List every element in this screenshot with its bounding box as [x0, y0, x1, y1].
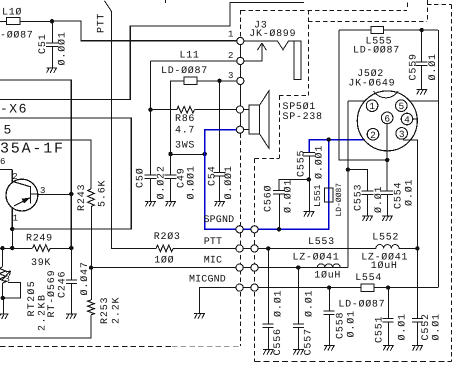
capacitor C554 — [381, 191, 393, 195]
wire base to module pin 6 — [0, 169, 12, 171]
wire right vertical (pin5 net) — [438, 30, 440, 287]
ground — [383, 346, 393, 351]
node R86/C50 — [148, 108, 152, 112]
dashed boundary stub — [407, 3, 409, 10]
inductor L553 — [317, 264, 340, 268]
svg-text:C553: C553 — [353, 184, 364, 211]
dashed boundary right edge — [451, 4, 453, 361]
wire to C558 — [329, 288, 331, 311]
svg-text:C246: C246 — [58, 271, 69, 298]
svg-text:C54: C54 — [207, 165, 218, 186]
svg-text:3: 3 — [5, 275, 11, 285]
jack plug body — [294, 41, 301, 80]
node R249/C246 — [69, 246, 73, 250]
ground — [165, 201, 175, 206]
wire emitter down — [12, 229, 14, 248]
svg-text:SP-238: SP-238 — [283, 112, 323, 123]
capacitor C552 — [412, 319, 423, 323]
wire to L10 — [0, 21, 7, 23]
dashed boundary top right — [427, 4, 452, 6]
capacitor C50 — [144, 175, 156, 179]
wire to C556 — [268, 248, 270, 324]
svg-text:Ø.Ø1: Ø.Ø1 — [274, 290, 285, 317]
node RT205 top — [0, 246, 4, 250]
dashed boundary bottom — [255, 361, 452, 363]
capacitor C553 — [361, 191, 373, 195]
svg-text:Ø.Ø1: Ø.Ø1 — [304, 290, 315, 317]
wire C54 — [219, 81, 221, 173]
J502 pin 3 — [396, 128, 408, 140]
wire to C557 — [298, 268, 300, 324]
svg-text:1ØuH: 1ØuH — [314, 270, 341, 281]
svg-text:C556: C556 — [273, 328, 284, 355]
svg-text:4: 4 — [404, 115, 410, 126]
wire MICGND to ground — [199, 288, 236, 314]
svg-text:LD-ØØ87: LD-ØØ87 — [338, 299, 385, 310]
capacitor C559 — [416, 62, 428, 66]
connector circle MICGND right — [251, 284, 258, 291]
svg-text:MICGND: MICGND — [189, 275, 226, 286]
connector circle MIC left — [236, 264, 243, 271]
connector circle SPGND right — [251, 226, 258, 233]
svg-text:LD-ØØ87: LD-ØØ87 — [353, 46, 400, 57]
node PTT/C556 — [266, 246, 270, 250]
svg-text:L554: L554 — [355, 273, 382, 284]
ground — [412, 346, 422, 351]
svg-text:Ø.ØØ1: Ø.ØØ1 — [187, 165, 198, 199]
svg-text:2: 2 — [228, 51, 234, 61]
wire L10 to node — [20, 21, 52, 23]
svg-text:JK-Ø649: JK-Ø649 — [348, 79, 395, 90]
dashed boundary — [279, 96, 281, 159]
wire C50 to ground — [150, 178, 152, 201]
connector circle J3 pin1 — [237, 37, 244, 44]
capacitor C560 — [273, 190, 285, 194]
wire to blue node — [171, 154, 205, 156]
node L11/C49 — [168, 152, 172, 156]
connector circle PTT right — [251, 245, 258, 252]
resistor R253 — [88, 300, 95, 315]
transistor leads — [12, 170, 38, 229]
svg-text:RT-Ø569: RT-Ø569 — [47, 270, 58, 318]
dashed boundary SP box top — [308, 21, 427, 23]
wire C560 to SPGND — [279, 194, 281, 229]
J502 pin 2 — [367, 129, 379, 141]
ground — [263, 350, 273, 355]
J502 pin 5 — [396, 100, 408, 112]
connector circle J3 pin3 — [237, 77, 244, 84]
capacitor C558 — [324, 311, 335, 315]
wire blue branch to C555 — [309, 140, 329, 153]
svg-text:C5Ø: C5Ø — [136, 167, 147, 188]
svg-text:35A-1F: 35A-1F — [0, 141, 65, 158]
wire to C551 — [388, 288, 390, 319]
wire C555 down — [309, 156, 311, 180]
wire RT205 wiper loop — [3, 283, 21, 298]
wire top net to module — [0, 3, 304, 100]
wire RT205 bottom — [2, 283, 4, 298]
capacitor C555 — [303, 152, 315, 156]
wire connector column solid — [240, 37, 242, 133]
svg-text:MIC: MIC — [204, 255, 222, 266]
connector circle speaker+ — [236, 106, 243, 113]
wire to RT205 — [2, 248, 4, 266]
speaker cone — [260, 91, 269, 148]
svg-text:RT2Ø5: RT2Ø5 — [27, 280, 38, 317]
dashed bottom left (black) — [0, 346, 172, 348]
wire speaker pin2 — [244, 129, 249, 131]
svg-text:R86: R86 — [175, 114, 195, 125]
svg-text:C555: C555 — [296, 150, 307, 177]
svg-text:1ØØ: 1ØØ — [154, 255, 174, 266]
svg-text:L551: L551 — [313, 184, 323, 207]
svg-text:6: 6 — [0, 157, 6, 167]
node L554/C551 — [386, 285, 390, 289]
svg-text:Ø.Ø22: Ø.Ø22 — [157, 165, 168, 199]
wire to C552 — [417, 248, 419, 318]
svg-text:L553: L553 — [308, 237, 335, 248]
capacitor C551 — [383, 319, 394, 323]
svg-text:LD-ØØ87: LD-ØØ87 — [161, 66, 208, 77]
svg-text:1: 1 — [13, 214, 19, 224]
svg-text:4.7: 4.7 — [175, 125, 195, 136]
svg-text:C559: C559 — [409, 53, 420, 80]
wire R203 to PTT pin — [173, 248, 237, 250]
svg-text:L11: L11 — [180, 51, 200, 62]
node C560/SPGND — [277, 227, 281, 231]
node collector junction — [69, 192, 73, 196]
svg-text:C51: C51 — [38, 33, 49, 54]
J502 pin 4 — [401, 113, 413, 125]
wire C552 to ground — [417, 322, 419, 345]
wire PTT to R203 — [111, 248, 156, 250]
ground — [214, 201, 224, 206]
resistor R243 — [88, 189, 95, 207]
dashed bottom left (gray) — [172, 346, 240, 348]
wire pin1 down to MIC — [347, 101, 349, 268]
node emitter junction — [10, 227, 14, 231]
svg-text:3: 3 — [40, 186, 46, 196]
wire module to emitter — [0, 118, 131, 229]
wire collector — [38, 194, 72, 196]
svg-text:5: 5 — [398, 101, 404, 112]
wire down to R86 node — [150, 61, 152, 110]
node pin1/C553 — [346, 167, 350, 171]
wire to R86 — [150, 109, 176, 111]
RT205 wiper arrow — [2, 271, 11, 281]
node L555/C559 — [419, 28, 423, 32]
wire R86 to speaker pin — [194, 109, 236, 111]
svg-text:Ø.ØØ1: Ø.ØØ1 — [58, 31, 69, 65]
node L552/pin3/C552 — [415, 246, 419, 250]
dashed column lower — [240, 233, 242, 346]
wire C49 to ground — [170, 178, 172, 201]
dashed boundary col2 — [254, 159, 256, 362]
wire MIC row — [91, 267, 348, 269]
wire blue speaker-SPGND-J502pin2 — [205, 130, 369, 230]
wire C553 to ground — [367, 194, 369, 215]
svg-text:3: 3 — [399, 129, 405, 140]
wire PTT net — [105, 1, 112, 249]
wire module to R243 — [0, 140, 91, 189]
wire pin3 down — [404, 137, 418, 248]
capacitor C246 — [66, 280, 77, 284]
resistor R249 — [33, 245, 51, 252]
capacitor C49 — [165, 175, 177, 179]
svg-text:Ø.Ø1: Ø.Ø1 — [347, 310, 358, 337]
wire pin6 down — [386, 123, 388, 191]
capacitor C557 — [293, 324, 304, 328]
wire jack tip contact — [244, 41, 294, 50]
ground — [46, 68, 56, 73]
trimmer RT205 — [0, 267, 6, 283]
wire stub at top edge — [165, 0, 167, 3]
wire node to J3 pin1 — [52, 21, 237, 41]
ground — [362, 216, 372, 221]
node blue junction — [327, 137, 331, 141]
connector circle speaker- — [236, 126, 243, 133]
connector circle MIC right — [251, 264, 258, 271]
wire C246 to ground — [71, 284, 73, 314]
ground — [0, 314, 8, 319]
ground — [194, 314, 204, 319]
wire to C51 — [52, 21, 54, 43]
svg-text:Ø.ØØ1: Ø.ØØ1 — [315, 145, 326, 179]
node on blue wire — [203, 152, 207, 156]
wire C558 to ground — [329, 315, 331, 346]
node MIC/R253 — [89, 265, 93, 269]
svg-text:PTT: PTT — [97, 13, 108, 33]
svg-text:C557: C557 — [304, 328, 315, 355]
svg-text:5: 5 — [4, 123, 13, 138]
wire to C49 — [170, 154, 172, 175]
connector circle PTT left — [236, 245, 243, 252]
resistor R203 — [156, 245, 173, 252]
svg-text:Ø.Ø1: Ø.Ø1 — [397, 313, 408, 340]
ground — [66, 314, 76, 319]
node L11/C54 — [217, 79, 221, 83]
emitter arrow — [22, 198, 29, 203]
svg-text:Ø.Ø1: Ø.Ø1 — [405, 179, 416, 206]
svg-text:3WS: 3WS — [175, 141, 195, 152]
ground — [145, 201, 155, 206]
wire R249 left — [0, 248, 33, 250]
inductor L555 — [371, 26, 384, 33]
inductor L554 — [361, 284, 374, 291]
wire L555 to pin6 — [339, 30, 387, 160]
svg-text:39K: 39K — [31, 258, 51, 269]
svg-text:Ø.ØØ1: Ø.ØØ1 — [224, 165, 235, 199]
svg-text:SPGND: SPGND — [204, 215, 235, 226]
wire speaker pin1 — [244, 109, 249, 111]
wire C559 to ground — [421, 66, 423, 90]
connector J502 body — [357, 91, 417, 151]
wire to C560 — [279, 179, 309, 190]
node pin6/L555 — [385, 158, 389, 162]
svg-text:-X6: -X6 — [0, 101, 28, 116]
svg-text:JK-Ø899: JK-Ø899 — [249, 29, 296, 40]
wire to C553 — [348, 170, 368, 191]
wire C54 to ground — [219, 176, 221, 201]
wire to R253 — [91, 268, 93, 300]
svg-text:LD-ØØ87: LD-ØØ87 — [335, 183, 344, 217]
svg-text:2: 2 — [12, 172, 18, 182]
wire to C246 — [71, 248, 73, 280]
capacitor C54 — [214, 173, 226, 177]
wire MICGND row right — [199, 287, 361, 289]
node MICGND/C558 — [327, 285, 331, 289]
wire PTT row right — [173, 248, 376, 250]
svg-text:2: 2 — [370, 130, 376, 141]
inductor L11 — [184, 77, 197, 84]
inductor L10 — [7, 17, 20, 24]
svg-text:Ø.ØØ1: Ø.ØØ1 — [284, 179, 295, 213]
inductor L551 — [325, 188, 333, 202]
svg-text:C551: C551 — [375, 316, 386, 343]
svg-text:1ØuH: 1ØuH — [371, 261, 398, 272]
svg-text:6: 6 — [384, 113, 390, 124]
speaker SP501 symbol — [249, 105, 260, 134]
J502 index notch — [374, 91, 399, 98]
wire L553 to pin1 net — [341, 267, 348, 269]
svg-text:R249: R249 — [26, 233, 53, 244]
node MIC/C557 — [296, 265, 300, 269]
dashed boundary — [308, 10, 310, 96]
dashed boundary — [279, 95, 308, 97]
transistor Q1 — [6, 179, 38, 211]
wire R249 right — [50, 248, 71, 250]
ground — [324, 346, 334, 351]
node L10/C51 junction — [50, 19, 54, 23]
wire J3 pin3 — [197, 80, 237, 82]
capacitor C51 — [46, 43, 58, 47]
dashed boundary — [255, 158, 280, 160]
dashed column below speaker — [240, 133, 242, 225]
wire to C559 — [421, 30, 423, 62]
svg-text:Ø.Ø1: Ø.Ø1 — [431, 313, 442, 340]
inductor L552 — [376, 245, 399, 249]
svg-text:Ø.Ø1: Ø.Ø1 — [428, 53, 439, 80]
ground — [304, 212, 314, 217]
svg-text:1: 1 — [228, 30, 234, 40]
svg-text:C552: C552 — [421, 313, 432, 340]
svg-text:LZ-ØØ41: LZ-ØØ41 — [293, 252, 340, 263]
dashed column above J3 — [240, 10, 242, 38]
connector circle MICGND left — [236, 284, 243, 291]
wire L554 to right vertical — [374, 287, 438, 289]
dashed boundary top J3 box — [241, 10, 407, 12]
wire to C50 — [150, 110, 152, 175]
wire C557 to ground — [298, 328, 300, 350]
svg-text:PTT: PTT — [204, 237, 222, 248]
wire pin1 — [348, 100, 365, 102]
wire pin5 — [410, 100, 438, 102]
svg-text:3: 3 — [228, 71, 234, 81]
J502 pin 6 — [381, 112, 393, 124]
svg-text:R243: R243 — [77, 184, 88, 211]
wire to ground — [3, 298, 5, 314]
svg-text:C554: C554 — [394, 182, 405, 209]
connector circle J3 pin2 — [237, 57, 244, 64]
wire L555 row — [339, 29, 438, 31]
wire to ground — [309, 179, 311, 211]
ground — [382, 216, 392, 221]
wire L11 left down — [171, 81, 184, 154]
svg-text:Ø.Ø1: Ø.Ø1 — [374, 186, 385, 213]
svg-text:5.6K: 5.6K — [98, 180, 109, 207]
wire pin4 stub — [413, 118, 417, 120]
wire R253 to left — [0, 315, 91, 338]
wire C554 to ground — [387, 194, 389, 215]
ground — [293, 350, 303, 355]
J502 pin 1 — [366, 100, 378, 112]
ground — [416, 90, 426, 95]
svg-text:L552: L552 — [372, 232, 399, 243]
wire C51 to ground — [52, 47, 54, 68]
svg-text:2.2K: 2.2K — [112, 297, 123, 324]
node C555/C560/ground — [307, 177, 311, 181]
svg-text:C558: C558 — [336, 312, 347, 339]
wire L552 right — [399, 248, 418, 250]
wire C556 to ground — [268, 328, 270, 350]
wire R243 to MIC — [91, 207, 93, 268]
svg-text:R2Ø3: R2Ø3 — [154, 232, 181, 243]
connector circle SPGND left — [236, 226, 243, 233]
wire J3 pin2 — [150, 60, 236, 62]
svg-text:R253: R253 — [100, 297, 111, 324]
resistor R86 — [177, 106, 195, 113]
svg-text:C56Ø: C56Ø — [264, 185, 275, 212]
svg-text:1: 1 — [369, 101, 375, 112]
jack switch arrow — [244, 43, 267, 61]
wire module pin to collector — [0, 80, 71, 248]
dashed boundary — [427, 0, 429, 21]
wire C551 to ground — [388, 322, 390, 345]
svg-text:-ØØ87: -ØØ87 — [0, 31, 34, 42]
node RT205/ground — [1, 296, 5, 300]
node emitter/R249 — [10, 246, 14, 250]
capacitor C556 — [263, 324, 274, 328]
